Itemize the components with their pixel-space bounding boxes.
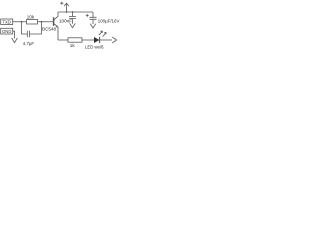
node B junction [41, 21, 43, 23]
transistor Q1 emitter [54, 24, 58, 40]
supply +V line [66, 4, 68, 12]
svg-text:LED weiß: LED weiß [85, 44, 104, 49]
capacitor C3 lower lead [92, 20, 94, 24]
capacitor C2 100nF plates [69, 17, 76, 19]
resistor R1 10k [27, 20, 38, 25]
svg-text:1k: 1k [70, 43, 76, 48]
svg-text:100µF/16V: 100µF/16V [98, 19, 120, 24]
svg-text:GND: GND [2, 29, 11, 34]
connector box GND [1, 28, 13, 34]
transistor Q1 base bar [53, 17, 55, 26]
capacitor C2 lower lead [72, 19, 74, 24]
transistor Q1 emitter arrowhead [56, 25, 58, 27]
wire cap to node B [30, 22, 42, 34]
wire emitter to resistor R2 [58, 39, 68, 41]
capacitor C3 plates [90, 17, 97, 19]
connector box TXD [1, 19, 13, 25]
wire resistor to base [38, 21, 54, 23]
svg-text:10k: 10k [27, 15, 35, 20]
wire LED to output [100, 39, 112, 41]
ground arrow under C3 [90, 24, 96, 28]
svg-text:BC548: BC548 [42, 27, 56, 32]
supply plus sign [60, 2, 63, 5]
wire branch down from node A [22, 22, 28, 34]
LED D1 cathode bar [99, 37, 101, 43]
ground arrow under C2 [70, 23, 76, 27]
resistor R2 1k [68, 38, 82, 42]
wire R2 to LED [82, 39, 94, 41]
transistor Q1 collector [54, 12, 58, 20]
wire base from TXD to resistor [13, 21, 27, 23]
capacitor C3 100uF lead from rail [92, 12, 94, 17]
wire GND pin [13, 31, 15, 38]
capacitor C2 100nF junction [72, 11, 74, 13]
node A junction [21, 21, 23, 23]
capacitor C3 plus sign [86, 14, 89, 17]
svg-text:100nF: 100nF [59, 18, 72, 23]
svg-text:TXD: TXD [3, 19, 11, 24]
wire top rail [58, 11, 93, 13]
capacitor C1 4.7uF [27, 31, 29, 38]
svg-text:4,7µF: 4,7µF [23, 41, 35, 46]
ground arrow left [12, 38, 18, 43]
LED D1 triangle [94, 37, 99, 43]
LED D1 emission arrow 1 [99, 31, 103, 35]
supply +V arrowhead [64, 3, 69, 6]
LED D1 emission arrow 2 [103, 32, 107, 36]
output arrowhead [112, 37, 116, 43]
capacitor C2 100nF lead [72, 12, 74, 16]
supply node junction [66, 11, 68, 13]
